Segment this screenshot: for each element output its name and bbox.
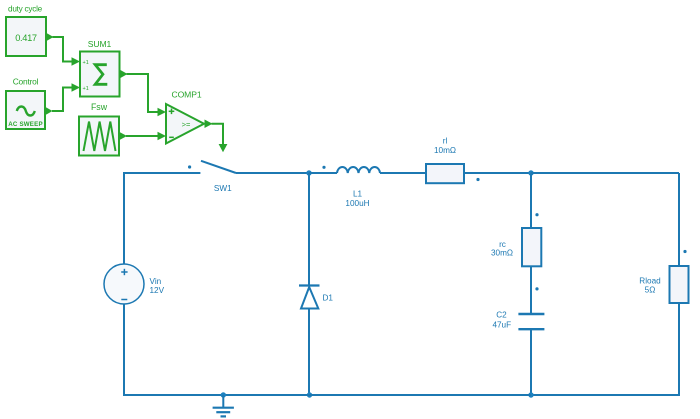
wire C2 to bottom rail <box>530 329 532 395</box>
terminal dot above Rload <box>683 250 686 253</box>
svg-text:SW1: SW1 <box>214 184 232 193</box>
wire left rail top (Vin plus to switch) <box>124 173 200 264</box>
wire rl to node B <box>464 172 531 174</box>
svg-text:100uH: 100uH <box>345 199 369 208</box>
svg-text:0.417: 0.417 <box>15 33 37 43</box>
wire right rail upper <box>678 173 680 266</box>
switch SW1 <box>188 161 236 173</box>
wire rc to C2 <box>530 266 532 313</box>
svg-text:30mΩ: 30mΩ <box>491 249 513 258</box>
wire node B to rc <box>530 173 532 228</box>
svg-text:Vin: Vin <box>150 277 162 286</box>
inductor L1 <box>337 167 380 173</box>
wire COMP1 output to SW1 gate (down arrow) <box>212 124 228 152</box>
ground <box>213 395 234 416</box>
svg-text:47uF: 47uF <box>492 321 511 330</box>
output port arrow of Fsw <box>119 132 127 140</box>
svg-text:L1: L1 <box>353 190 363 199</box>
wire duty cycle to SUM1 input 1 <box>53 37 81 66</box>
diode D1 <box>299 286 320 309</box>
svg-text:Fsw: Fsw <box>91 102 108 112</box>
wire diode anode to bottom rail <box>308 309 310 396</box>
svg-text:COMP1: COMP1 <box>171 90 201 100</box>
svg-text:rl: rl <box>443 137 448 146</box>
comparator COMP1 <box>166 104 204 144</box>
wire switch to node A <box>236 172 309 174</box>
svg-text:>=: >= <box>182 120 191 129</box>
source block Control (AC SWEEP) <box>6 91 45 129</box>
svg-text:12V: 12V <box>150 286 165 295</box>
junction diode bottom <box>307 392 312 397</box>
wire SUM1 to COMP1 plus input <box>127 74 167 116</box>
wire right rail lower <box>531 303 679 395</box>
svg-text:Rload: Rload <box>639 277 661 286</box>
svg-text:+1: +1 <box>83 86 89 92</box>
svg-text:AC SWEEP: AC SWEEP <box>8 121 43 128</box>
wire L1 to rl <box>380 172 426 174</box>
node B junction (rl/rc/Rload) <box>528 170 533 175</box>
svg-text:duty cycle: duty cycle <box>8 5 43 14</box>
triangle-wave block Fsw <box>79 117 119 156</box>
svg-text:D1: D1 <box>323 294 334 303</box>
output port arrow of duty cycle <box>46 33 54 41</box>
wire node B to right rail <box>531 172 679 174</box>
node A junction (switch/diode/inductor) <box>306 170 311 175</box>
wire bottom rail middle <box>223 394 531 396</box>
terminal dot right of rl <box>476 178 479 181</box>
svg-text:Control: Control <box>13 77 39 87</box>
svg-text:10mΩ: 10mΩ <box>434 146 456 155</box>
wire diode branch top <box>308 173 310 285</box>
wire Control to SUM1 input 2 <box>52 83 80 111</box>
resistor Rload <box>670 266 689 303</box>
svg-text:+1: +1 <box>83 60 89 66</box>
output port arrow of SUM1 <box>120 70 128 79</box>
resistor rl <box>426 164 464 183</box>
output port arrow of COMP1 <box>205 120 213 129</box>
svg-text:SUM1: SUM1 <box>88 39 112 49</box>
terminal dot below rc <box>535 287 538 290</box>
terminal dot above rc <box>535 213 538 216</box>
terminal dot left of L1 <box>322 166 325 169</box>
junction C2 bottom <box>528 392 533 397</box>
wire Vin minus to bottom rail <box>124 304 223 395</box>
summer block SUM1 <box>80 52 120 97</box>
svg-text:C2: C2 <box>496 311 507 320</box>
resistor rc <box>522 228 541 266</box>
constant block duty cycle <box>6 17 46 56</box>
capacitor C2 <box>518 314 544 329</box>
output port arrow of Control <box>45 107 53 115</box>
junction ground <box>221 392 226 397</box>
voltage source Vin <box>104 264 144 304</box>
wire Fsw to COMP1 minus input <box>126 132 166 140</box>
wire node A to L1 <box>309 172 337 174</box>
svg-text:5Ω: 5Ω <box>645 286 656 295</box>
